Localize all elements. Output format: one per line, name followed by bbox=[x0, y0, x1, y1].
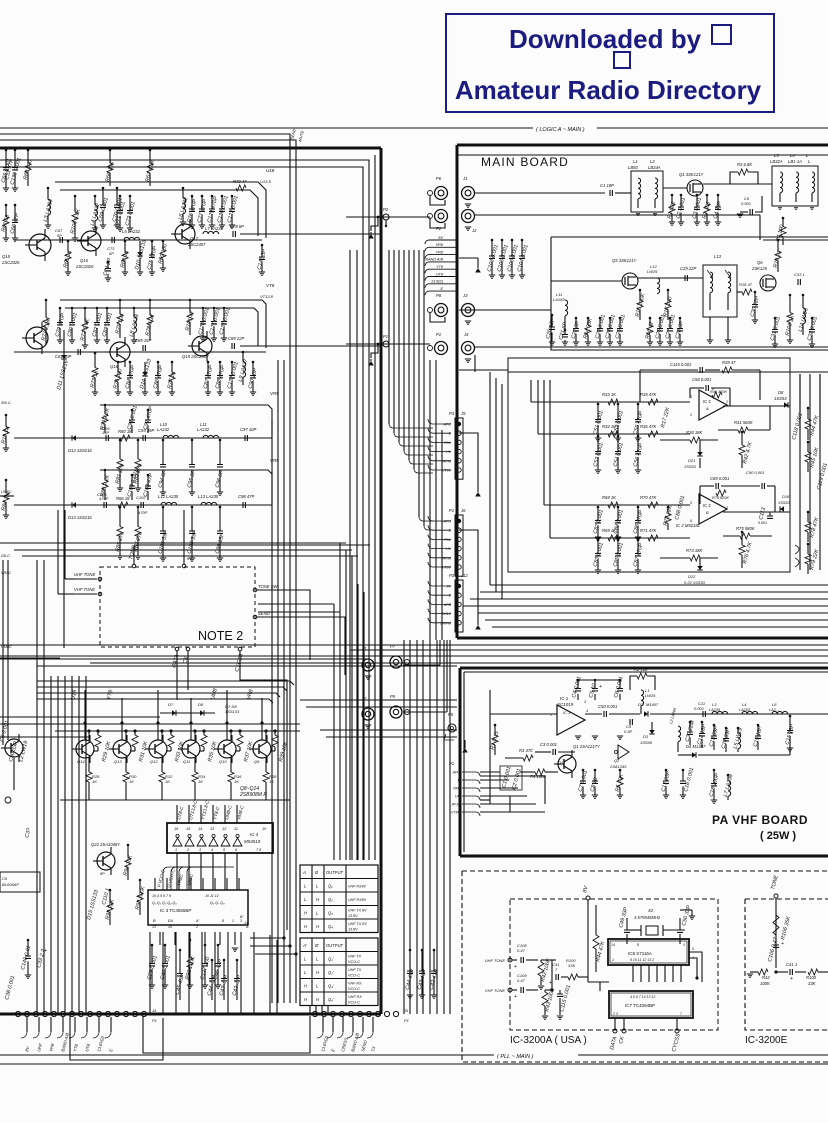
wire bbox=[0, 657, 60, 659]
svg-text:UHF TONE: UHF TONE bbox=[74, 572, 95, 577]
svg-text:1SS53: 1SS53 bbox=[778, 500, 791, 505]
wire bbox=[490, 713, 557, 715]
svg-text:470P: 470P bbox=[99, 496, 109, 501]
node junction e bbox=[774, 970, 777, 973]
wire ic4 risers bbox=[149, 932, 151, 1014]
svg-text:IC 3 TC4555BP: IC 3 TC4555BP bbox=[160, 908, 191, 913]
connector J4 P1 row bbox=[15, 1011, 20, 1016]
wire band lower bbox=[490, 584, 828, 586]
connector J12 stack bbox=[455, 580, 463, 632]
svg-text:IC8 S7116A: IC8 S7116A bbox=[628, 951, 652, 956]
wire bbox=[7, 560, 9, 740]
svg-text:LA232: LA232 bbox=[197, 427, 210, 432]
capacitor C30p bbox=[689, 721, 692, 724]
IC3 pin bottom bbox=[174, 932, 176, 945]
resistor Q14 emitter bbox=[88, 757, 90, 772]
svg-text:C3 0.001: C3 0.001 bbox=[540, 742, 557, 747]
inductor L1p bbox=[641, 690, 644, 706]
capacitor C25 bbox=[619, 317, 622, 320]
wire bbox=[0, 736, 90, 738]
svg-text:D21: D21 bbox=[688, 458, 695, 463]
capacitor C130 bbox=[221, 195, 224, 198]
wire q-row bus bbox=[55, 730, 300, 732]
node E bbox=[425, 291, 457, 295]
dashed box IC-3200A bbox=[510, 899, 718, 1030]
resistor R1p bbox=[494, 724, 497, 727]
wire bbox=[459, 309, 551, 311]
svg-text:BAND A/B: BAND A/B bbox=[425, 258, 443, 262]
svg-text:13.8(2): 13.8(2) bbox=[431, 280, 444, 284]
IC4 pin top bbox=[188, 805, 190, 823]
svg-text:( 25W ): ( 25W ) bbox=[760, 830, 796, 842]
wire ic3 to bus bbox=[250, 937, 284, 939]
IC3 pin bottom bbox=[219, 932, 221, 945]
svg-text:YT8: YT8 bbox=[436, 265, 444, 269]
node UT8 bbox=[425, 277, 457, 281]
svg-text:IC 2: IC 2 bbox=[703, 503, 711, 508]
diode D4p bbox=[692, 752, 696, 758]
capacitor C13p bbox=[713, 724, 716, 727]
svg-text:APC: APC bbox=[443, 520, 452, 524]
svg-text:2SA1345: 2SA1345 bbox=[609, 764, 627, 769]
IC4 driver gate bbox=[221, 838, 230, 846]
resistor R3p bbox=[523, 755, 533, 761]
wire pin bend bbox=[428, 465, 451, 470]
wire loop bbox=[143, 1016, 310, 1053]
capacitor C70 bbox=[116, 187, 119, 190]
box audio section bbox=[508, 358, 790, 572]
capacitor C78 bbox=[233, 231, 235, 237]
svg-text:J6: J6 bbox=[460, 508, 466, 513]
transistor Q15 bbox=[29, 234, 51, 256]
transistor Q18a bbox=[26, 327, 48, 349]
resistor Q13 base bbox=[134, 731, 136, 735]
svg-text:LA263: LA263 bbox=[739, 708, 751, 712]
svg-text:IC 2 M5218L: IC 2 M5218L bbox=[676, 523, 701, 528]
svg-text:UHF RX: UHF RX bbox=[348, 995, 362, 999]
IC4 driver gate bbox=[185, 838, 194, 846]
resistor Q11 emitter bbox=[194, 757, 196, 772]
resistor R84 bbox=[5, 479, 8, 482]
svg-text:C29 22P: C29 22P bbox=[680, 266, 697, 271]
svg-text:SOL2: SOL2 bbox=[442, 612, 451, 616]
resistor R77 bbox=[171, 361, 174, 364]
IC4 pin top bbox=[236, 805, 238, 823]
resistor R41 bbox=[738, 427, 748, 433]
capacitor C103b bbox=[491, 239, 494, 242]
ground bbox=[475, 268, 481, 273]
resistor R73 bbox=[690, 555, 700, 561]
wire bbox=[480, 775, 545, 777]
wire diode column bbox=[63, 330, 65, 648]
svg-text:P1: P1 bbox=[449, 508, 454, 513]
inductor L9 bbox=[242, 351, 245, 354]
svg-text:R18 47: R18 47 bbox=[739, 282, 753, 287]
resistor R74 bbox=[117, 361, 120, 364]
resistor R43 bbox=[544, 990, 546, 992]
svg-text:1K: 1K bbox=[234, 779, 239, 784]
capacitor C75 bbox=[151, 240, 154, 243]
svg-text:C41 1: C41 1 bbox=[786, 962, 797, 967]
svg-text:LB34A: LB34A bbox=[648, 165, 661, 170]
resistor Q9 base bbox=[274, 731, 276, 735]
node TONE SW bbox=[253, 588, 257, 592]
svg-text:Q13: Q13 bbox=[114, 759, 122, 764]
wire bbox=[240, 233, 381, 235]
svg-text:Q14: Q14 bbox=[77, 759, 85, 764]
wire main board left edge bbox=[456, 145, 459, 638]
svg-text:D8-C: D8-C bbox=[1, 554, 10, 558]
IC4 pin bottom bbox=[188, 853, 190, 868]
node 8V note2 bbox=[183, 510, 185, 564]
svg-text:Q6: Q6 bbox=[757, 260, 763, 265]
svg-text:13.8V: 13.8V bbox=[348, 914, 358, 918]
wire J2 right bbox=[475, 214, 760, 216]
capacitor C5p bbox=[594, 679, 597, 682]
inductor L3 bbox=[780, 172, 783, 193]
wire bbox=[0, 716, 160, 718]
resistor R69 bbox=[608, 535, 618, 541]
svg-text:P1: P1 bbox=[436, 332, 441, 337]
wire pin bend bbox=[428, 525, 451, 530]
svg-text:PAV: PAV bbox=[453, 787, 460, 791]
svg-text:Q15: Q15 bbox=[2, 254, 11, 259]
capacitor C29b bbox=[685, 275, 687, 281]
inductor L3 L4 box bbox=[772, 166, 818, 206]
svg-text:J12: J12 bbox=[460, 573, 468, 578]
wire pin bend bbox=[428, 544, 451, 549]
wire strip D signal bbox=[14, 504, 272, 506]
capacitor C30b bbox=[754, 291, 757, 294]
svg-text:11: 11 bbox=[234, 827, 238, 831]
inductor L4p bbox=[742, 711, 758, 714]
capacitor C100 bbox=[191, 506, 194, 509]
capacitor C24 bbox=[609, 317, 612, 320]
svg-text:5: 5 bbox=[692, 947, 694, 951]
capacitor C122 bbox=[231, 195, 234, 198]
svg-text:VR8: VR8 bbox=[436, 243, 444, 247]
capacitor C127 bbox=[204, 944, 207, 947]
svg-text:R38 18K: R38 18K bbox=[686, 430, 703, 435]
capacitor C31 bbox=[774, 317, 777, 320]
capacitor C21 bbox=[564, 329, 567, 332]
svg-text:P2: P2 bbox=[383, 207, 389, 212]
inductor L13s bbox=[201, 502, 217, 505]
wire ch2 in bbox=[538, 433, 690, 435]
svg-text:0.001: 0.001 bbox=[694, 706, 704, 711]
wire pin bend bbox=[428, 590, 451, 595]
capacitor C93 bbox=[143, 435, 145, 441]
wire band bbox=[0, 644, 828, 646]
svg-text:VCO-C: VCO-C bbox=[348, 1001, 360, 1005]
diode D7 bbox=[160, 712, 215, 714]
svg-text:IC 1: IC 1 bbox=[560, 696, 569, 701]
capacitor C101 bbox=[162, 506, 165, 509]
resistor R5p bbox=[619, 769, 622, 772]
capacitor C3 bbox=[696, 194, 699, 197]
wire pin bend bbox=[428, 581, 451, 586]
svg-text:D16: D16 bbox=[782, 494, 790, 499]
capacitor C20 bbox=[551, 314, 554, 317]
IC3 pin top bbox=[178, 878, 180, 890]
wire bundle mid low bbox=[403, 640, 405, 1014]
inductor L1 bbox=[638, 178, 641, 199]
inductor L4 bbox=[94, 195, 97, 198]
resistor R74 bbox=[716, 490, 726, 496]
resistor R100e bbox=[808, 969, 818, 975]
node BL bbox=[5, 797, 11, 803]
node CK bbox=[186, 647, 190, 651]
svg-text:LW25: LW25 bbox=[645, 693, 656, 698]
node CYCSS b bbox=[675, 1029, 679, 1033]
wire strip A signal bbox=[14, 239, 262, 241]
svg-text:EA: EA bbox=[168, 919, 174, 923]
svg-text:R3 6.8K: R3 6.8K bbox=[737, 162, 752, 167]
svg-text:P5: P5 bbox=[448, 712, 454, 717]
capacitor C90 bbox=[252, 361, 255, 364]
dashed box NOTE 2 bbox=[100, 567, 255, 647]
svg-text:+: + bbox=[790, 976, 793, 982]
node YT8 bbox=[425, 269, 457, 273]
IC3 pin top bbox=[166, 878, 168, 890]
node CYCSS bbox=[238, 647, 242, 651]
resistor R17 bbox=[667, 289, 670, 292]
capacitor C23 bbox=[599, 317, 602, 320]
transistor Q16 bbox=[81, 231, 101, 251]
connector P2 bbox=[435, 210, 448, 223]
resistor R86 bbox=[118, 502, 128, 508]
svg-text:L13 LA235: L13 LA235 bbox=[198, 494, 219, 499]
IC3 pin top bbox=[214, 878, 216, 890]
resistor R69 bbox=[162, 240, 165, 243]
diode D2p bbox=[644, 711, 648, 717]
resistor R80 bbox=[120, 435, 130, 441]
wire transistor row risers bbox=[84, 690, 86, 740]
wire logic-a-main boundary bbox=[0, 127, 533, 129]
svg-text:B': B' bbox=[315, 943, 319, 948]
wire pin bend bbox=[428, 456, 451, 461]
svg-text:RF.M: RF.M bbox=[443, 459, 451, 463]
capacitor C74 bbox=[107, 261, 110, 264]
dashed box IC-3200E bbox=[745, 898, 828, 900]
capacitor C82b bbox=[597, 506, 600, 509]
transistor Q20 bbox=[5, 739, 23, 757]
svg-text:1SS53: 1SS53 bbox=[684, 464, 697, 469]
svg-text:J2: J2 bbox=[471, 228, 477, 233]
capacitor C87 bbox=[207, 361, 210, 364]
resistor R82 bbox=[137, 439, 140, 442]
svg-text:VCO-C: VCO-C bbox=[348, 987, 360, 991]
inductor L3 bbox=[47, 187, 50, 190]
connector J5 P1 row bbox=[312, 1011, 317, 1016]
svg-text:15P: 15P bbox=[102, 430, 109, 435]
svg-text:B: B bbox=[706, 510, 709, 515]
wire pin bend bbox=[428, 447, 451, 452]
svg-text:R69 1K: R69 1K bbox=[602, 528, 616, 533]
svg-text:VT8: VT8 bbox=[266, 283, 275, 288]
capacitor C4 bbox=[717, 194, 720, 197]
wire pin bend bbox=[428, 599, 451, 604]
ground bbox=[232, 948, 238, 951]
svg-text:R71 47K: R71 47K bbox=[640, 528, 657, 533]
node UHF TONE bbox=[98, 577, 102, 581]
svg-text:P5: P5 bbox=[390, 694, 396, 699]
svg-text:2SC2407: 2SC2407 bbox=[187, 242, 206, 247]
svg-text:Q₁ Q₂ Q₃ Q₄ Q₅: Q₁ Q₂ Q₃ Q₄ Q₅ bbox=[152, 901, 177, 905]
capacitor C104 bbox=[131, 474, 134, 477]
IC7 TC4094BP box bbox=[609, 991, 693, 1018]
banner box Amateur Radio Directory bbox=[446, 14, 774, 112]
resistor R62 bbox=[27, 149, 30, 152]
capacitor C50 bbox=[604, 711, 606, 717]
capacitor C97 bbox=[245, 435, 247, 441]
svg-text:R70 47K: R70 47K bbox=[640, 495, 657, 500]
transistor Q5 fet bbox=[622, 273, 638, 289]
svg-text:D7: D7 bbox=[168, 702, 174, 707]
inductor L11 bbox=[203, 435, 219, 438]
svg-text:C93 39P: C93 39P bbox=[138, 428, 155, 433]
capacitor C26 bbox=[659, 317, 662, 320]
svg-text:470P: 470P bbox=[138, 510, 148, 515]
svg-text:Q16: Q16 bbox=[80, 258, 89, 263]
svg-text:OUTPUT: OUTPUT bbox=[326, 943, 344, 948]
svg-text:IC 4: IC 4 bbox=[250, 832, 259, 837]
svg-text:R74 820K: R74 820K bbox=[712, 496, 729, 500]
IC4 driver gate bbox=[197, 838, 206, 846]
svg-text:L13: L13 bbox=[714, 254, 722, 259]
IC3 pin top bbox=[238, 878, 240, 890]
wire pin bend bbox=[428, 534, 451, 539]
capacitor C42t bbox=[236, 959, 239, 962]
IC4 pin bottom bbox=[224, 853, 226, 868]
capacitor C1 bbox=[610, 190, 612, 196]
inductor L4 bbox=[796, 172, 799, 193]
connector J1 mid bbox=[362, 659, 374, 671]
svg-text:Q₃': Q₃' bbox=[328, 984, 334, 989]
svg-text:8V: 8V bbox=[438, 236, 443, 240]
capacitor C27 bbox=[669, 317, 672, 320]
inductor L7p bbox=[727, 774, 730, 777]
IC U4 M54519 box bbox=[167, 823, 273, 853]
svg-text:0.001: 0.001 bbox=[758, 521, 767, 525]
svg-text:L12 LA235: L12 LA235 bbox=[158, 494, 179, 499]
svg-text:14: 14 bbox=[198, 827, 202, 831]
resistor R45 bbox=[807, 441, 810, 444]
wire bus rows bbox=[37, 681, 294, 685]
svg-text:RF.M: RF.M bbox=[443, 556, 451, 560]
svg-text:HV: HV bbox=[455, 795, 461, 799]
svg-text:Q₂': Q₂' bbox=[328, 970, 334, 975]
resistor R106 bbox=[773, 915, 779, 935]
svg-text:Q₂: Q₂ bbox=[328, 897, 333, 902]
svg-text:4 5 6 7 14 13 12: 4 5 6 7 14 13 12 bbox=[630, 995, 655, 999]
IC C6 BL006AP bbox=[0, 872, 40, 892]
wire bbox=[0, 495, 14, 497]
resistor R4p bbox=[535, 769, 545, 775]
resistor R34 bbox=[608, 431, 618, 437]
capacitor C82 bbox=[96, 307, 99, 310]
capacitor C140 bbox=[27, 939, 30, 942]
wire bbox=[663, 187, 687, 189]
wire PLL-MAIN boundary bbox=[0, 1054, 494, 1056]
svg-text:P8: P8 bbox=[436, 293, 442, 298]
svg-text:D2: D2 bbox=[638, 702, 644, 707]
capacitor C142 bbox=[261, 244, 264, 247]
svg-text:1K: 1K bbox=[165, 779, 170, 784]
capacitor C86b bbox=[637, 506, 640, 509]
capacitor C33b bbox=[798, 279, 800, 285]
IC3 pin bottom bbox=[204, 932, 206, 945]
capacitor C6p bbox=[619, 679, 622, 682]
svg-text:YR8: YR8 bbox=[436, 250, 444, 254]
IC7 pins bottom bbox=[614, 1018, 616, 1029]
resistor R2 bbox=[706, 194, 709, 197]
resistor R66 bbox=[109, 149, 112, 152]
svg-text:L2: L2 bbox=[650, 159, 655, 164]
resistor R33 bbox=[608, 399, 618, 405]
connector J3 bbox=[462, 304, 475, 317]
connector P5 mid bbox=[390, 706, 402, 718]
wire right edge brackets bbox=[795, 545, 799, 567]
resistor Q10 base bbox=[239, 731, 241, 735]
svg-text:IC 1: IC 1 bbox=[563, 710, 570, 715]
svg-text:Amateur Radio Directory: Amateur Radio Directory bbox=[455, 75, 762, 105]
svg-text:Q2: Q2 bbox=[614, 758, 620, 763]
svg-text:Q1: Q1 bbox=[558, 760, 563, 765]
transistor Q22 bbox=[97, 852, 115, 870]
node SEND bbox=[253, 615, 257, 619]
svg-text:D22: D22 bbox=[688, 574, 696, 579]
node VR8 bbox=[425, 247, 457, 251]
resistor R83 bbox=[104, 469, 107, 472]
ground bbox=[475, 625, 481, 630]
capacitor C77 bbox=[201, 195, 204, 198]
svg-text:VHF TX 8V: VHF TX 8V bbox=[348, 909, 367, 913]
svg-text:VT8V: VT8V bbox=[451, 811, 461, 815]
wire bbox=[578, 679, 620, 681]
svg-text:R35 47K: R35 47K bbox=[640, 392, 657, 397]
IC4 pin top bbox=[224, 805, 226, 823]
svg-text:LB1-1A: LB1-1A bbox=[788, 159, 802, 164]
IC3 pin top bbox=[190, 878, 192, 890]
inductor L5 bbox=[124, 237, 140, 240]
svg-text:LB32A: LB32A bbox=[770, 159, 783, 164]
capacitor C91 bbox=[131, 409, 134, 412]
wire loop bbox=[70, 1016, 163, 1060]
IC U3 TC4555BP box bbox=[148, 890, 248, 925]
capacitor C42 bbox=[433, 949, 436, 952]
svg-text:8V: 8V bbox=[187, 556, 192, 561]
svg-text:0.47: 0.47 bbox=[517, 978, 526, 983]
node VHF TONE bbox=[98, 592, 102, 596]
wire bbox=[475, 346, 828, 348]
svg-text:Q1 3SK121Y: Q1 3SK121Y bbox=[679, 172, 705, 177]
inductor L5t bbox=[812, 172, 815, 193]
connector J6 stack bbox=[455, 515, 463, 576]
wire bbox=[508, 371, 828, 373]
svg-text:Q19 2SC2407: Q19 2SC2407 bbox=[182, 354, 209, 359]
svg-text:J4: J4 bbox=[151, 1008, 157, 1013]
resistor R78b bbox=[807, 511, 810, 514]
inductor L6 bbox=[182, 187, 185, 190]
transistor Q6 fet bbox=[760, 275, 776, 291]
capacitor C55 bbox=[637, 403, 640, 406]
resistor R93 bbox=[109, 889, 112, 892]
svg-text:C50 0.001: C50 0.001 bbox=[598, 704, 617, 709]
svg-text:C81 10P: C81 10P bbox=[55, 354, 72, 359]
resistor R71b bbox=[648, 535, 658, 541]
connector J2 bbox=[462, 210, 475, 223]
